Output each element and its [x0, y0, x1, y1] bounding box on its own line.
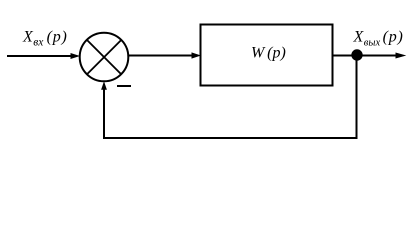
- svg-text:W(p): W(p): [251, 45, 286, 62]
